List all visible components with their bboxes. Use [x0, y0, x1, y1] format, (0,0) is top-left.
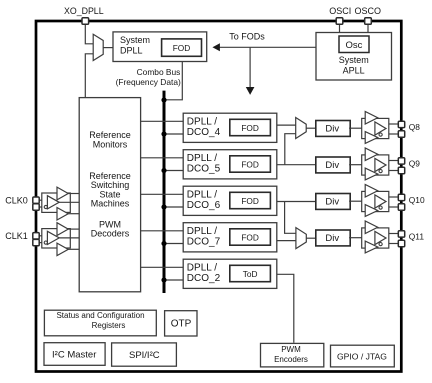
wire System DPLL to combo bus	[164, 62, 182, 100]
junction combo bus top	[161, 97, 166, 102]
block PWM Encoders	[261, 343, 324, 367]
svg-text:OSCI: OSCI	[329, 6, 351, 16]
svg-text:Reference: Reference	[89, 130, 131, 140]
svg-text:DPLL /: DPLL /	[187, 190, 217, 201]
svg-text:DCO_6: DCO_6	[187, 200, 221, 211]
pin Q9 positive	[398, 158, 404, 164]
mux Q11	[296, 228, 306, 249]
wire mux Q8 to Div	[306, 127, 316, 129]
pin CLK1 negative	[33, 239, 39, 245]
junction combo bus row 4	[161, 241, 166, 246]
svg-text:Q8: Q8	[409, 122, 421, 132]
pin XO_DPLL	[82, 18, 89, 25]
junction combo bus row 1	[161, 131, 166, 136]
pin Q11 positive	[398, 231, 404, 237]
block Status and Configuration Registers	[44, 310, 156, 336]
pin Q10 positive	[398, 194, 404, 200]
svg-text:Decoders: Decoders	[91, 229, 130, 239]
svg-text:DCO_7: DCO_7	[187, 237, 221, 248]
block I2C Master	[44, 343, 105, 366]
junction combo bus row 5	[161, 277, 166, 282]
junction combo bus row 2	[161, 168, 166, 173]
wire combo bus to DPLL/DCO_6	[164, 206, 183, 208]
block System APLL	[316, 33, 392, 81]
pin Q11 negative	[398, 240, 404, 246]
svg-text:DCO_2: DCO_2	[187, 273, 221, 284]
FOD box in DPLL / DCO_5	[230, 156, 271, 172]
wire mux output to System DPLL	[103, 47, 113, 49]
FOD box in DPLL / DCO_7	[230, 229, 271, 245]
wire reference input to DPLL/DCO_6	[141, 193, 184, 195]
wire combo bus to DPLL/DCO_4	[164, 133, 183, 135]
Div box Q11	[316, 230, 350, 246]
wire To FODs with left arrowhead	[218, 46, 316, 48]
chip outline border	[36, 21, 401, 372]
block System DPLL	[113, 32, 207, 62]
FOD box in DPLL / DCO_4	[230, 119, 271, 135]
wire OSCI to System APLL	[339, 25, 341, 33]
wire combo bus to DPLL/DCO_2	[164, 279, 183, 281]
wire reference input to DPLL/DCO_7	[141, 230, 184, 232]
Div box Q8	[316, 121, 350, 137]
svg-text:FOD: FOD	[173, 43, 191, 53]
svg-text:Div: Div	[325, 124, 339, 135]
svg-text:Div: Div	[325, 233, 339, 244]
pin Q9 negative	[398, 167, 404, 173]
input mux for System DPLL	[93, 34, 103, 60]
block DPLL / DCO_5	[183, 150, 277, 179]
block DPLL / DCO_2	[183, 259, 277, 288]
svg-text:ToD: ToD	[243, 269, 258, 279]
block OTP	[165, 311, 197, 336]
input buffer cluster CLK1	[42, 223, 79, 256]
input buffer cluster CLK0	[42, 187, 79, 220]
svg-text:Machines: Machines	[91, 199, 130, 209]
svg-text:FOD: FOD	[241, 159, 259, 169]
svg-text:Div: Div	[325, 160, 339, 171]
wire mux Q11 to Div	[306, 237, 316, 239]
pin OSCO	[365, 18, 372, 25]
svg-text:Combo Bus: Combo Bus	[137, 67, 181, 77]
combo bus vertical line	[163, 91, 166, 293]
svg-text:Q10: Q10	[409, 195, 425, 205]
svg-text:DPLL /: DPLL /	[187, 263, 217, 274]
Osc box inside System APLL	[339, 36, 369, 53]
svg-text:DCO_5: DCO_5	[187, 164, 221, 175]
svg-text:FOD: FOD	[241, 196, 259, 206]
pin Q8 positive	[398, 121, 404, 127]
wire DCO_6 to Div Q10 and branch to mux Q11	[277, 201, 316, 203]
wire CLK1 pins to input buffer	[38, 235, 47, 237]
svg-text:DCO_4: DCO_4	[187, 127, 221, 138]
output buffer cluster Q11	[362, 221, 399, 253]
svg-text:DPLL /: DPLL /	[187, 117, 217, 128]
svg-text:DPLL: DPLL	[120, 46, 143, 56]
svg-text:SPI/I²C: SPI/I²C	[129, 350, 160, 361]
FOD box inside System DPLL	[162, 39, 202, 56]
wire ToD to PWM Encoders	[277, 274, 294, 342]
wire reference input to DPLL/DCO_4	[141, 120, 184, 122]
svg-text:Status and Configuration: Status and Configuration	[56, 311, 144, 320]
wire Div to output buffers Q10	[349, 200, 362, 202]
svg-text:Switching: Switching	[91, 180, 130, 190]
block Reference Monitors / Switching / PWM Decoders	[79, 98, 140, 292]
pin CLK1 positive	[33, 233, 39, 239]
pin CLK0 negative	[33, 204, 39, 210]
block SPI/I2C	[112, 343, 177, 366]
wire CLK0 pins to input buffer	[38, 199, 47, 201]
svg-text:Monitors: Monitors	[93, 139, 128, 149]
block DPLL / DCO_4	[183, 113, 277, 142]
ToD box in DPLL / DCO_2	[230, 265, 271, 281]
svg-text:OSCO: OSCO	[355, 6, 382, 16]
wire combo bus to DPLL/DCO_7	[164, 243, 183, 245]
wire DCO_7 to mux Q11	[277, 240, 296, 242]
svg-text:I²C Master: I²C Master	[52, 349, 96, 360]
svg-text:CLK0: CLK0	[5, 196, 28, 206]
pin CLK0 positive	[33, 197, 39, 203]
FOD box in DPLL / DCO_6	[230, 192, 271, 208]
wire Div to output buffers Q11	[349, 237, 362, 239]
svg-text:PWM: PWM	[281, 345, 301, 354]
svg-text:DPLL /: DPLL /	[187, 226, 217, 237]
svg-text:XO_DPLL: XO_DPLL	[64, 6, 104, 16]
output buffer cluster Q9	[362, 148, 399, 180]
wire combo bus to DPLL/DCO_5	[164, 170, 183, 172]
svg-text:CLK1: CLK1	[5, 231, 28, 241]
svg-text:Q11: Q11	[409, 232, 425, 242]
svg-text:(Frequency Data): (Frequency Data)	[116, 77, 181, 87]
svg-text:Registers: Registers	[92, 321, 126, 330]
wire DCO_5 to Div Q9 and branch to mux Q8	[277, 164, 316, 166]
svg-text:DPLL /: DPLL /	[187, 153, 217, 164]
svg-text:Encoders: Encoders	[274, 355, 308, 364]
mux Q8	[296, 118, 307, 139]
pin OSCI	[336, 18, 343, 25]
wire Div to output buffers Q8	[349, 127, 362, 129]
block DPLL / DCO_7	[183, 223, 277, 252]
block GPIO / JTAG	[331, 345, 395, 367]
Div box Q9	[316, 157, 350, 173]
arrow down to FODs	[249, 47, 251, 88]
wire DCO_4 to mux Q8	[277, 124, 296, 126]
Div box Q10	[316, 194, 350, 210]
svg-text:FOD: FOD	[241, 123, 259, 133]
wire OSCO to System APLL	[367, 25, 369, 33]
pin Q8 negative	[398, 131, 404, 137]
wire Div to output buffers Q9	[349, 164, 362, 166]
svg-text:System: System	[339, 55, 369, 65]
svg-text:OTP: OTP	[171, 318, 192, 329]
svg-text:To FODs: To FODs	[229, 31, 265, 41]
svg-text:FOD: FOD	[241, 232, 259, 242]
wire XO_DPLL to mux input 1	[85, 25, 93, 44]
svg-text:Q9: Q9	[409, 159, 421, 169]
block DPLL / DCO_6	[183, 186, 277, 215]
svg-text:Div: Div	[325, 197, 339, 208]
svg-text:GPIO / JTAG: GPIO / JTAG	[337, 352, 387, 362]
output buffer cluster Q8	[362, 112, 399, 144]
pin Q10 negative	[398, 204, 404, 210]
output buffer cluster Q10	[362, 185, 399, 217]
svg-text:APLL: APLL	[343, 65, 365, 75]
svg-text:Osc: Osc	[346, 40, 363, 51]
junction combo bus row 3	[161, 204, 166, 209]
wire reference input to DPLL/DCO_5	[141, 157, 184, 159]
wire reference input to DPLL/DCO_2	[141, 266, 184, 268]
wire mux input 2 down to Reference Monitors	[85, 54, 93, 98]
svg-text:System: System	[120, 35, 150, 45]
